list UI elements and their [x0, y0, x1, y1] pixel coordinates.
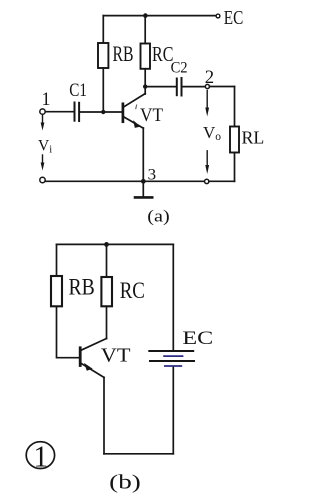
svg-text:RL: RL: [242, 128, 265, 148]
svg-text:2: 2: [205, 67, 214, 88]
svg-text:RB: RB: [113, 42, 134, 66]
svg-text:VT: VT: [140, 105, 163, 126]
svg-text:VT: VT: [101, 345, 131, 367]
svg-text:1: 1: [42, 89, 51, 110]
svg-text:C2: C2: [171, 60, 188, 77]
svg-text:RC: RC: [120, 278, 145, 303]
svg-text:(b): (b): [109, 471, 141, 493]
svg-text:3: 3: [148, 167, 157, 184]
svg-text:C1: C1: [69, 80, 87, 101]
svg-text:(a): (a): [147, 207, 169, 226]
svg-text:EC: EC: [224, 7, 244, 29]
svg-text:1: 1: [34, 439, 49, 474]
svg-text:EC: EC: [182, 328, 213, 349]
svg-text:RB: RB: [69, 274, 95, 300]
